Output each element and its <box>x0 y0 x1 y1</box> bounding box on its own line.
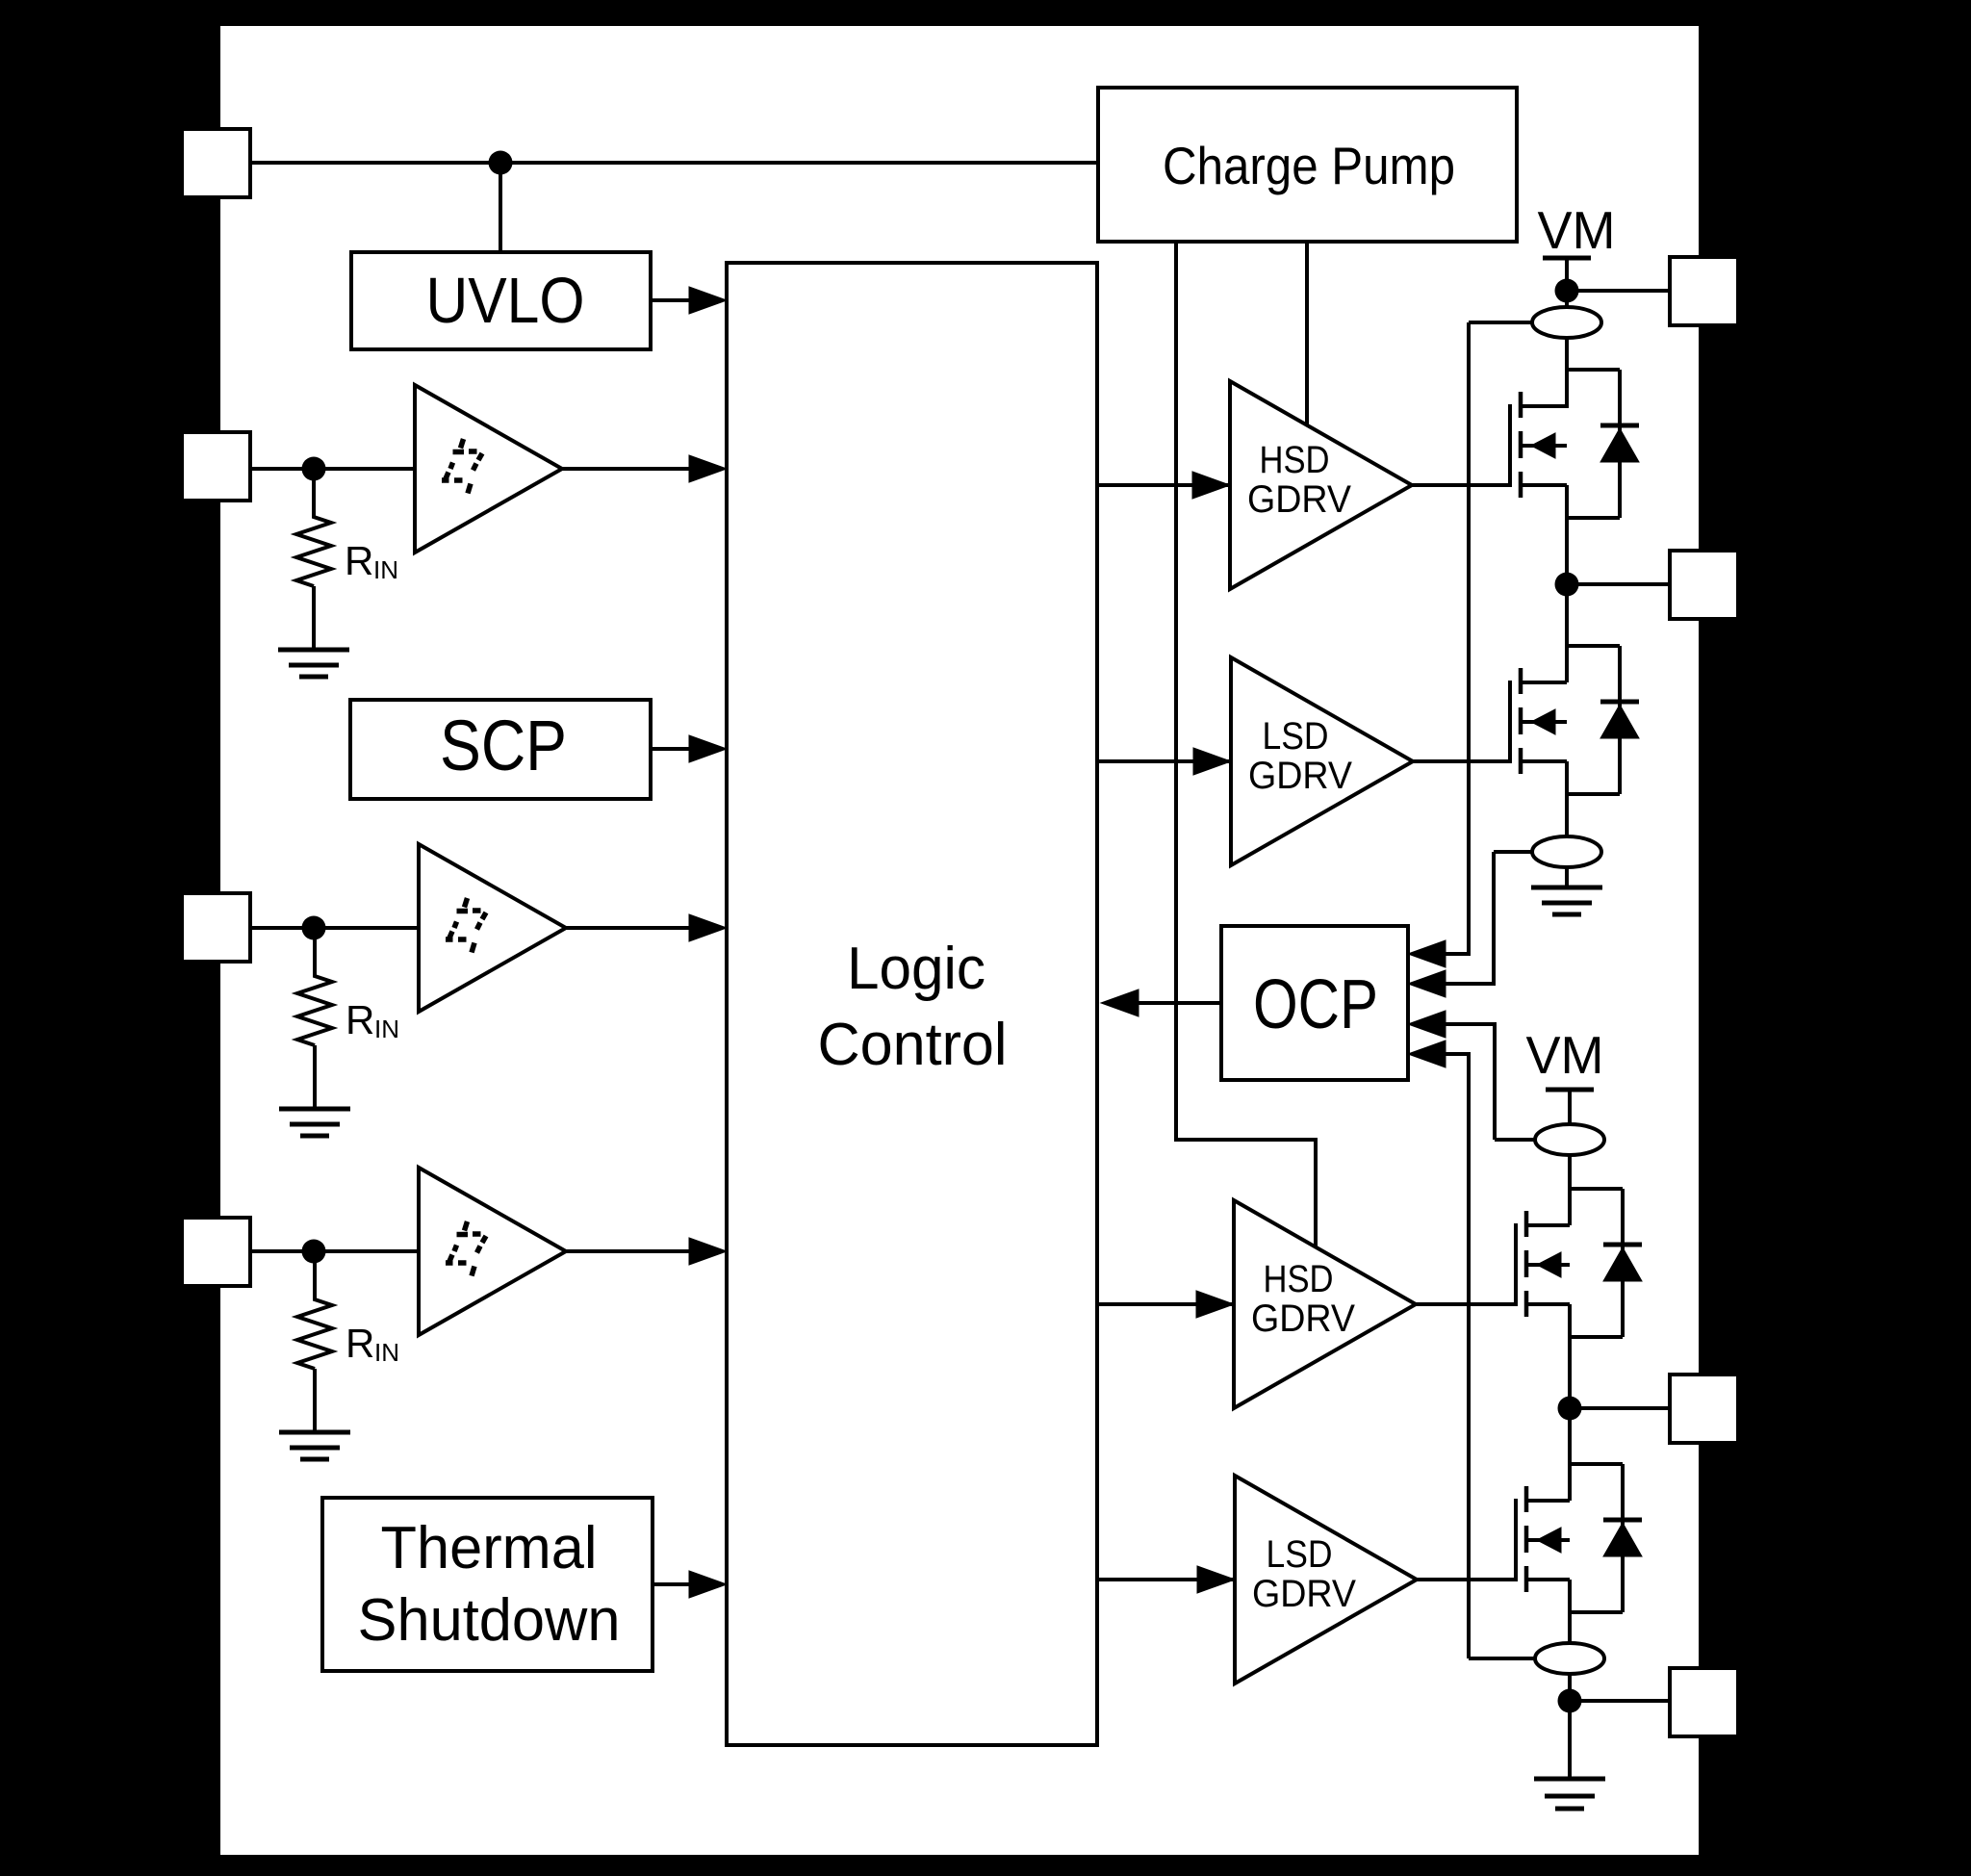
pin IN1 <box>182 432 250 501</box>
label R_IN IN3 <box>346 1321 399 1367</box>
wire IN2 resistor to ground <box>313 1045 317 1109</box>
node IN1 comparator input junction <box>302 457 326 481</box>
svg-text:HSD: HSD <box>1260 439 1330 481</box>
current sense ellipse LS2 <box>1535 1643 1604 1674</box>
arrowhead IN2 comparator to Logic <box>689 914 727 941</box>
label R_IN IN1 <box>345 538 398 584</box>
wire Thermal Shutdown to Logic <box>653 1582 693 1586</box>
wire Logic to LSD GDRV 1 <box>1097 759 1231 763</box>
block UVLO <box>351 252 651 349</box>
wire IN1 comparator input <box>250 467 415 471</box>
wire Logic to LSD GDRV 2 <box>1097 1578 1235 1581</box>
wire OCP to sense LS2 <box>1446 1054 1469 1658</box>
svg-text:OCP: OCP <box>1253 966 1378 1043</box>
pin VM (right) <box>1670 257 1738 325</box>
wire M2 source down <box>1565 761 1569 836</box>
node VM (HB1) <box>1555 279 1579 303</box>
svg-text:R: R <box>345 538 373 583</box>
svg-text:VM: VM <box>1526 1025 1604 1085</box>
wire OUT2 node to pin <box>1570 1406 1670 1410</box>
node OUT1 <box>1555 573 1579 597</box>
wire Logic to HSD GDRV 2 <box>1097 1302 1234 1306</box>
svg-text:R: R <box>346 1321 374 1366</box>
svg-text:LSD: LSD <box>1267 1533 1333 1576</box>
wire UVLO to Logic <box>651 298 693 302</box>
wire Charge Pump to HSD GDRV 1 <box>1305 242 1309 426</box>
device outline (white area) <box>220 26 1699 1855</box>
wire sense LS1 stub <box>1494 850 1532 854</box>
amplifier HSD GDRV 2 <box>1234 1200 1416 1408</box>
wire VM node down (HB1) <box>1565 291 1569 307</box>
supply VM bar (half-bridge 2) <box>1546 1088 1594 1092</box>
arrowhead into LSD GDRV 1 <box>1193 748 1231 775</box>
wire OCP to sense HS2 <box>1446 1024 1495 1140</box>
wire IN3 comparator input <box>250 1249 419 1253</box>
arrowhead into HSD GDRV 2 <box>1196 1291 1234 1318</box>
block OCP <box>1221 926 1408 1080</box>
ground IN3 <box>279 1432 350 1459</box>
svg-text:HSD: HSD <box>1264 1258 1334 1300</box>
wire Logic to HSD GDRV 1 <box>1097 483 1230 487</box>
diode body (M2 (low-side 1)) <box>1567 646 1639 794</box>
arrowhead sense HS2 into OCP <box>1408 1011 1446 1038</box>
wire IN2 comparator input <box>250 926 419 930</box>
wire VM node to pin <box>1567 289 1670 293</box>
arrowhead IN3 comparator to Logic <box>689 1238 727 1265</box>
block Charge Pump <box>1098 88 1517 242</box>
amplifier LSD GDRV 2 <box>1235 1476 1417 1683</box>
svg-text:VM: VM <box>1538 200 1616 260</box>
diode body (M1 (high-side 1)) <box>1567 370 1639 518</box>
wire HSD2 to gate M3 <box>1416 1302 1516 1306</box>
wire OUT1 node to pin <box>1567 582 1670 586</box>
block SCP <box>350 700 651 799</box>
comparator IN1 comparator (schmitt trigger) <box>415 385 562 553</box>
svg-text:Thermal: Thermal <box>381 1515 598 1581</box>
wire IN3 comparator output <box>566 1249 693 1253</box>
wire HS2 drain <box>1568 1155 1572 1225</box>
wire VM bar to node (HB1) <box>1565 258 1569 291</box>
resistor R_IN IN1 <box>296 469 331 586</box>
arrowhead Thermal Shutdown to Logic <box>689 1571 727 1598</box>
diode body (M4 (low-side 2)) <box>1570 1464 1642 1612</box>
comparator IN3 comparator (schmitt trigger) <box>419 1168 566 1335</box>
arrowhead sense LS1 into OCP <box>1408 970 1446 997</box>
node junction VM wire <box>489 151 513 175</box>
wire OCP to Logic <box>1136 1001 1221 1005</box>
svg-text:LSD: LSD <box>1263 715 1329 758</box>
wire SN node to pin <box>1570 1699 1670 1703</box>
amplifier LSD GDRV 1 <box>1231 657 1413 865</box>
arrowhead into LSD GDRV 2 <box>1197 1566 1235 1593</box>
wire LS2 to SN node <box>1568 1674 1572 1701</box>
transistor M3 (high-side 2) <box>1516 1211 1570 1317</box>
hysteresis symbol IN1 comparator <box>442 439 482 494</box>
wire HSD1 to gate M1 <box>1412 483 1510 487</box>
wire IN1 resistor to ground <box>312 586 316 650</box>
pin OUT2 <box>1670 1375 1738 1443</box>
node IN3 comparator input junction <box>302 1240 326 1264</box>
svg-text:GDRV: GDRV <box>1248 755 1352 797</box>
current sense ellipse LS1 <box>1532 836 1601 867</box>
wire sense HS2 stub <box>1495 1138 1535 1142</box>
arrowhead sense HS1 into OCP <box>1408 940 1446 967</box>
svg-text:GDRV: GDRV <box>1251 1298 1355 1340</box>
wire OUT2 to M4 drain <box>1568 1408 1572 1501</box>
arrowhead sense LS2 into OCP <box>1408 1041 1446 1067</box>
transistor M2 (low-side 1) <box>1510 668 1567 774</box>
pin VM (top-left) <box>182 129 250 197</box>
wire Charge Pump to HSD GDRV 2 <box>1176 242 1316 1248</box>
wire sense LS1 to OCP <box>1446 852 1494 984</box>
arrowhead SCP to Logic <box>689 735 727 762</box>
svg-text:Shutdown: Shutdown <box>358 1587 621 1654</box>
wire IN1 comparator output <box>562 467 693 471</box>
ground IN1 <box>278 650 349 677</box>
arrowhead UVLO to Logic <box>689 287 727 314</box>
svg-text:R: R <box>346 997 374 1042</box>
node IN2 comparator input junction <box>302 916 326 940</box>
wire SCP to Logic <box>651 747 693 751</box>
pin SN <box>1670 1668 1738 1736</box>
resistor R_IN IN2 <box>297 928 332 1045</box>
svg-text:Charge Pump: Charge Pump <box>1163 136 1455 195</box>
ground IN2 <box>279 1109 350 1136</box>
svg-text:UVLO: UVLO <box>426 265 585 337</box>
wire M3 source to OUT2 node <box>1568 1304 1572 1408</box>
svg-text:GDRV: GDRV <box>1247 478 1351 521</box>
arrowhead OCP to Logic <box>1101 989 1139 1016</box>
wire LSD1 to gate M2 <box>1412 759 1510 763</box>
wire sense LS2 stub <box>1469 1657 1535 1660</box>
block Thermal Shutdown <box>322 1498 653 1671</box>
transistor M1 (high-side 1) <box>1510 392 1567 498</box>
amplifier HSD GDRV 1 <box>1230 381 1412 589</box>
hysteresis symbol IN3 comparator <box>446 1221 486 1276</box>
wire SN to ground <box>1568 1701 1572 1779</box>
svg-text:Logic: Logic <box>847 936 985 1002</box>
transistor M4 (low-side 2) <box>1516 1486 1570 1592</box>
wire OUT1 to M2 drain <box>1565 584 1569 682</box>
ground half-bridge 1 <box>1531 887 1602 914</box>
block Logic Control <box>727 263 1097 1745</box>
current sense ellipse HS1 <box>1532 307 1601 338</box>
wire LSD2 to gate M4 <box>1417 1578 1516 1581</box>
label R_IN IN2 <box>346 997 399 1043</box>
wire junction to UVLO <box>499 163 502 252</box>
arrowhead into HSD GDRV 1 <box>1192 472 1230 499</box>
diode body (M3 (high-side 2)) <box>1570 1189 1642 1337</box>
wire pin VM to Charge Pump <box>250 161 1098 165</box>
arrowhead IN1 comparator to Logic <box>689 455 727 482</box>
supply VM bar (half-bridge 1) <box>1543 256 1591 261</box>
wire IN3 resistor to ground <box>313 1369 317 1432</box>
wire IN2 comparator output <box>566 926 693 930</box>
svg-text:IN: IN <box>373 555 398 584</box>
current sense ellipse HS2 <box>1535 1124 1604 1155</box>
resistor R_IN IN3 <box>297 1251 332 1369</box>
comparator IN2 comparator (schmitt trigger) <box>419 844 566 1012</box>
svg-text:SCP: SCP <box>440 706 567 785</box>
svg-text:IN: IN <box>374 1338 399 1367</box>
svg-text:Control: Control <box>818 1012 1008 1078</box>
pin OUT1 <box>1670 551 1738 619</box>
wire LS1 to ground <box>1565 867 1569 887</box>
wire sense HS1 to OCP <box>1446 322 1469 954</box>
svg-text:GDRV: GDRV <box>1252 1573 1356 1615</box>
node OUT2 <box>1558 1397 1582 1421</box>
pin IN3 <box>182 1218 250 1286</box>
wire VM bar down (HB2) <box>1568 1090 1572 1124</box>
wire sense HS1 stub <box>1469 321 1532 324</box>
wire HS1 drain <box>1565 338 1569 408</box>
wire M1 source to OUT1 node <box>1565 485 1569 584</box>
ground half-bridge 2 <box>1534 1779 1605 1809</box>
node SN <box>1558 1689 1582 1713</box>
pin IN2 <box>182 893 250 962</box>
wire M4 source down <box>1568 1580 1572 1643</box>
hysteresis symbol IN2 comparator <box>446 898 486 953</box>
svg-text:IN: IN <box>374 1015 399 1043</box>
